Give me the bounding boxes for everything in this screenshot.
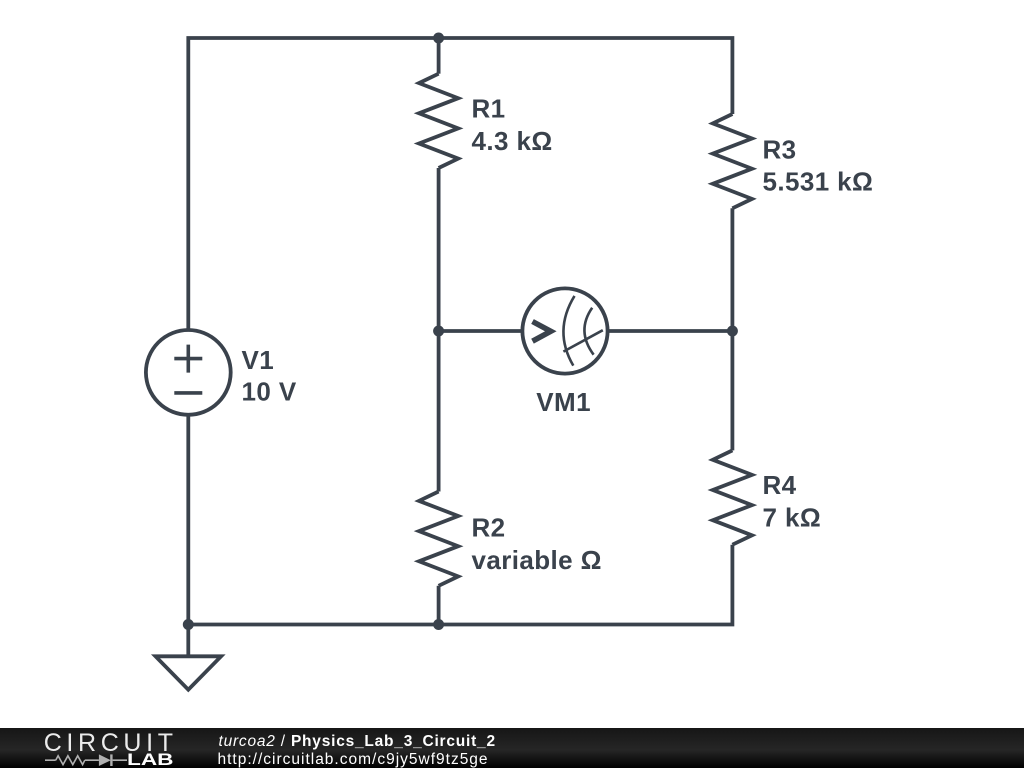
- wire middle vertical upper lead: [437, 38, 441, 74]
- node dot bottom left: [183, 619, 194, 630]
- svg-text:http://circuitlab.com/c9jy5wf9: http://circuitlab.com/c9jy5wf9tz5ge: [218, 751, 489, 768]
- svg-text:turcoa2 / Physics_Lab_3_Circui: turcoa2 / Physics_Lab_3_Circuit_2: [219, 733, 496, 750]
- wire middle horizontal left of voltmeter: [439, 329, 523, 333]
- svg-text:V1: V1: [242, 345, 275, 375]
- wire bottom rail with right rail lower segment: [188, 545, 732, 625]
- svg-text:variable Ω: variable Ω: [472, 545, 602, 575]
- voltage source V1 circle: [146, 330, 231, 415]
- voltmeter VM1 circle: [522, 288, 607, 373]
- svg-text:7 kΩ: 7 kΩ: [763, 502, 822, 532]
- node dot top: [433, 33, 444, 44]
- node dot middle right: [727, 326, 738, 337]
- wire top rail with left rail upper segment: [188, 38, 732, 330]
- svg-text:LAB: LAB: [127, 751, 174, 768]
- svg-text:5.531 kΩ: 5.531 kΩ: [763, 167, 874, 197]
- resistor R3: [713, 114, 752, 208]
- V1 minus sign: [174, 391, 202, 395]
- V1 plus sign: [174, 345, 202, 373]
- node dot bottom middle: [433, 619, 444, 630]
- ground symbol: [156, 656, 222, 689]
- wire middle vertical lower lead: [437, 586, 441, 625]
- svg-text:VM1: VM1: [536, 387, 591, 417]
- node dot middle left: [433, 326, 444, 337]
- logo resistor zigzag: [56, 756, 85, 765]
- voltmeter scale arc inner: [584, 308, 593, 355]
- resistor R1: [419, 74, 458, 168]
- wire middle vertical mid segment: [437, 168, 441, 492]
- svg-text:R2: R2: [472, 513, 506, 543]
- svg-text:R3: R3: [763, 134, 797, 164]
- wire right rail mid segment: [731, 208, 735, 450]
- svg-text:10 V: 10 V: [242, 376, 297, 406]
- svg-text:R4: R4: [763, 470, 797, 500]
- wire middle horizontal right of voltmeter: [608, 329, 733, 333]
- svg-text:R1: R1: [472, 94, 506, 124]
- voltmeter needle: [563, 330, 602, 351]
- footer bar: [0, 728, 1024, 768]
- wire left rail lower segment: [186, 415, 190, 656]
- svg-text:4.3 kΩ: 4.3 kΩ: [472, 126, 553, 156]
- voltmeter chevron: [533, 322, 551, 342]
- resistor R4: [713, 450, 752, 544]
- resistor R2: [419, 492, 458, 586]
- logo diode: [99, 754, 111, 766]
- logo schematic wire: [45, 756, 127, 765]
- voltmeter scale arc outer: [563, 296, 574, 366]
